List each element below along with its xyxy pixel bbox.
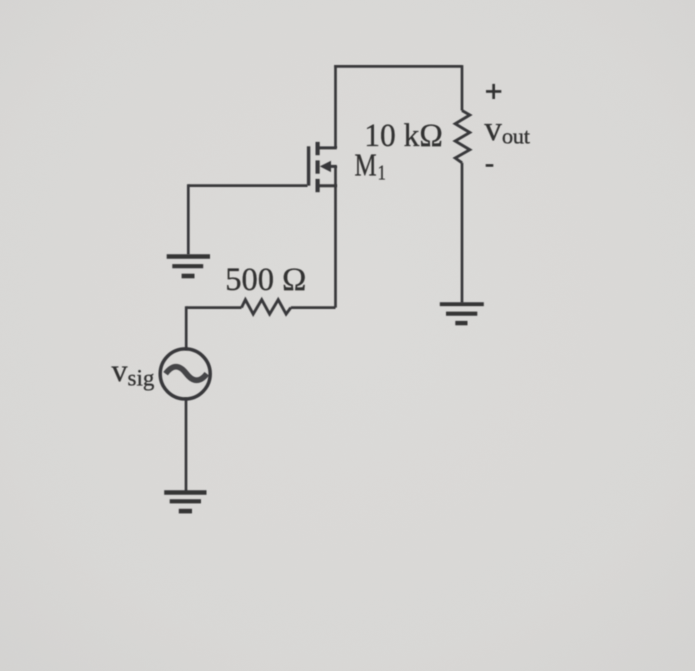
- source Vsig (sine source circle): [160, 349, 210, 399]
- wire resistor RL to output ground: [461, 163, 464, 303]
- body lead with arrow: [327, 165, 337, 168]
- gate bar: [307, 146, 310, 185]
- wire gate to ground: [187, 184, 190, 255]
- wire source symbol to ground: [185, 398, 188, 492]
- wire vsig node down to source symbol: [185, 306, 188, 350]
- resistor RL 10 kOhm zigzag: [455, 111, 470, 163]
- wire 500 ohm right to source node: [291, 306, 336, 309]
- wire drain to top rail: [334, 65, 337, 148]
- svg-text:500 Ω: 500 Ω: [225, 262, 306, 298]
- label plus: [486, 84, 501, 99]
- ground symbol (vsig): [164, 493, 206, 512]
- resistor Rsig 500 Ohm zigzag: [242, 300, 291, 314]
- wire 500 ohm left to vsig node: [186, 306, 241, 309]
- wire top rail horizontal: [334, 65, 462, 68]
- ground symbol (output): [440, 304, 484, 323]
- sine wave inside source: [166, 367, 207, 381]
- channel segment drain: [316, 142, 320, 155]
- channel segment source: [316, 179, 320, 192]
- drain lead: [318, 146, 337, 149]
- wire top rail to resistor RL: [461, 65, 464, 110]
- channel segment body: [316, 160, 320, 173]
- wire gate: [188, 184, 307, 187]
- transistor M1 (NMOS): [309, 142, 337, 192]
- source lead: [318, 184, 337, 187]
- wire source/body down to 500 ohm node: [334, 166, 337, 308]
- label minus: [486, 164, 494, 167]
- ground symbol (gate): [167, 257, 210, 277]
- body arrow head: [320, 161, 331, 172]
